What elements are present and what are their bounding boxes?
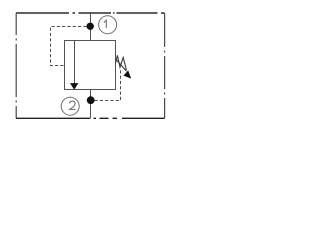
pilot line (dashed) from port 2 node to spring chamber xyxy=(95,70,121,101)
valve body V1 (envelope square) xyxy=(65,41,116,90)
component boundary right side xyxy=(164,13,166,118)
wire: port 1 line from boundary to valve body xyxy=(90,13,92,40)
pilot line (dashed) from port 1 node to valve body left side xyxy=(51,27,87,66)
component boundary bottom side xyxy=(16,117,165,119)
spring (adjustable) on valve body right side xyxy=(115,55,126,70)
wire: port 2 line from valve body to boundary xyxy=(90,90,92,119)
port label 1 xyxy=(99,16,117,34)
adjustment arrow across spring xyxy=(116,59,132,79)
flow path arrow inside valve body xyxy=(70,41,78,90)
junction node at port 1 xyxy=(87,23,94,30)
port label 2 xyxy=(61,97,79,115)
component boundary (dash-dot enclosure) top side xyxy=(16,12,165,14)
junction node at port 2 xyxy=(87,96,95,104)
component boundary left side xyxy=(15,13,17,118)
